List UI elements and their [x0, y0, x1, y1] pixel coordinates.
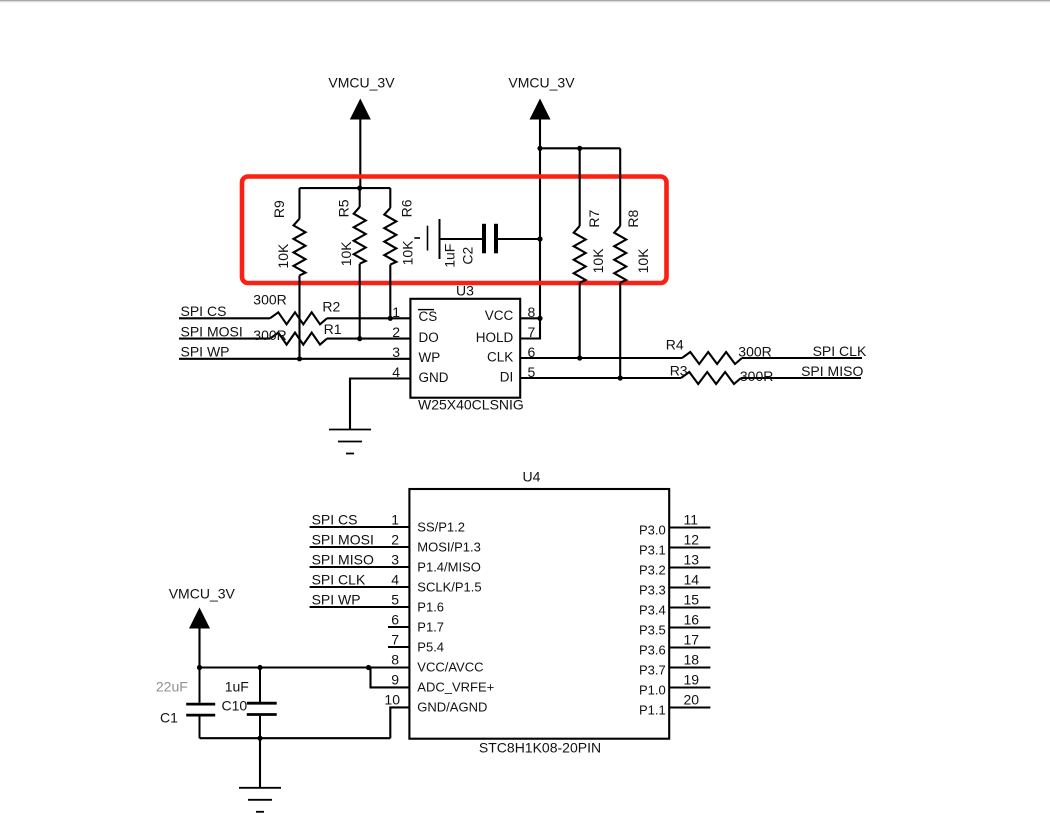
- svg-text:300R: 300R: [253, 327, 286, 343]
- svg-text:WP: WP: [419, 350, 441, 365]
- wire U4 pin 16 stub: [669, 626, 710, 628]
- wire U4 pin 15 stub: [669, 606, 710, 608]
- ground U3: [329, 429, 371, 431]
- junction dot C2 right: [537, 236, 542, 241]
- wire U4 pin 14 stub: [669, 586, 710, 588]
- svg-text:U3: U3: [456, 283, 474, 299]
- junction dot R7 top: [577, 146, 582, 151]
- svg-text:1: 1: [391, 512, 399, 528]
- svg-text:GND/AGND: GND/AGND: [417, 700, 487, 715]
- svg-text:SPI MISO: SPI MISO: [801, 363, 863, 379]
- junction dot R9 bottom pin3: [297, 356, 302, 361]
- wire U4 pin 13 stub: [669, 566, 710, 568]
- svg-text:P3.0: P3.0: [639, 523, 666, 538]
- wire VMCU_3V left down: [359, 120, 361, 189]
- resistor R2: [270, 312, 327, 324]
- junction dot R8 bottom: [618, 375, 623, 380]
- svg-text:300R: 300R: [740, 368, 773, 384]
- capacitor C10: [259, 668, 261, 702]
- svg-text:SS/P1.2: SS/P1.2: [417, 520, 465, 535]
- svg-text:19: 19: [684, 672, 700, 688]
- wire bottom gnd rail: [200, 737, 391, 739]
- wire R4 to SPI_CLK: [742, 357, 862, 359]
- resistor R5: [359, 188, 361, 207]
- wire gnd rail to ground: [259, 738, 261, 788]
- wire U4 pin 7 stub: [388, 646, 409, 648]
- net SPI_MISO wire U4 pin 3: [310, 566, 410, 568]
- wire U3 pin 4 to ground: [350, 379, 410, 430]
- svg-text:17: 17: [684, 632, 700, 648]
- svg-text:2: 2: [392, 324, 400, 340]
- svg-text:4: 4: [392, 364, 400, 380]
- svg-text:C2: C2: [459, 247, 475, 265]
- wire U4 pin 10 to gnd rail: [390, 707, 409, 738]
- net SPI_MOSI wire U4 pin 2: [310, 546, 410, 548]
- net SPI_CLK wire U4 pin 4: [310, 586, 410, 588]
- wire VCC rail to U4 pin 8: [200, 666, 410, 668]
- svg-text:VCC/AVCC: VCC/AVCC: [417, 660, 483, 675]
- ground bottom: [239, 787, 281, 789]
- wire U3 pin 8 stub: [520, 317, 540, 319]
- svg-text:SPI CS: SPI CS: [181, 303, 227, 319]
- svg-text:13: 13: [684, 552, 700, 568]
- resistor R6: [389, 188, 391, 208]
- svg-text:R9: R9: [271, 200, 287, 218]
- svg-text:10K: 10K: [399, 240, 415, 266]
- svg-text:W25X40CLSNIG: W25X40CLSNIG: [418, 397, 524, 413]
- net SPI_MOSI wire to pin 2: [179, 338, 270, 340]
- svg-text:2: 2: [391, 532, 399, 548]
- resistor R7: [579, 148, 581, 226]
- wire U4 pin 6 stub: [388, 626, 409, 628]
- svg-text:SPI WP: SPI WP: [181, 343, 230, 359]
- svg-text:9: 9: [391, 672, 399, 688]
- resistor R1: [270, 333, 327, 345]
- junction dot VMCU right / branch: [537, 146, 542, 151]
- svg-text:12: 12: [684, 532, 700, 548]
- svg-text:CLK: CLK: [487, 349, 513, 364]
- svg-text:VMCU_3V: VMCU_3V: [169, 586, 236, 602]
- svg-text:ADC_VRFE+: ADC_VRFE+: [417, 680, 494, 695]
- wire VMCU_3V right vertical rail: [539, 120, 541, 319]
- net SPI_CS wire to pin 1: [179, 317, 270, 319]
- svg-text:P3.7: P3.7: [639, 663, 666, 678]
- resistor R3: [681, 372, 741, 384]
- wire U4 pin 20 stub: [669, 706, 710, 708]
- resistor R4: [682, 352, 742, 364]
- svg-text:10: 10: [384, 692, 400, 708]
- svg-text:VMCU_3V: VMCU_3V: [508, 75, 575, 91]
- svg-text:C10: C10: [222, 698, 248, 714]
- svg-text:P3.4: P3.4: [639, 603, 666, 618]
- svg-text:SCLK/P1.5: SCLK/P1.5: [417, 580, 481, 595]
- svg-text:3: 3: [392, 344, 400, 360]
- junction dot R5 top: [357, 186, 362, 191]
- svg-text:R2: R2: [322, 299, 340, 315]
- wire top bus R9 R5 R6: [300, 187, 391, 189]
- svg-text:5: 5: [391, 592, 399, 608]
- net SPI_WP wire U4 pin 5: [310, 606, 410, 608]
- svg-text:P1.1: P1.1: [639, 703, 666, 718]
- svg-text:P1.0: P1.0: [639, 683, 666, 698]
- svg-text:STC8H1K08-20PIN: STC8H1K08-20PIN: [479, 740, 601, 756]
- svg-text:R3: R3: [670, 363, 688, 379]
- svg-text:DI: DI: [500, 370, 514, 385]
- wire branch to U4 pin 9: [371, 668, 410, 688]
- wire U4 pin 19 stub: [669, 686, 710, 688]
- svg-text:C1: C1: [160, 710, 178, 726]
- capacitor C1: [199, 668, 201, 703]
- svg-text:11: 11: [684, 512, 699, 528]
- svg-text:GND: GND: [419, 370, 449, 385]
- svg-text:300R: 300R: [253, 292, 286, 308]
- svg-text:SPI CLK: SPI CLK: [312, 572, 366, 588]
- svg-text:3: 3: [391, 552, 399, 568]
- svg-text:4: 4: [391, 572, 399, 588]
- junction dot R7 bottom: [577, 355, 582, 360]
- svg-text:16: 16: [684, 612, 700, 628]
- svg-text:20: 20: [684, 692, 700, 708]
- svg-text:DO: DO: [419, 330, 439, 345]
- svg-text:10K: 10K: [338, 241, 354, 267]
- svg-text:R7: R7: [586, 210, 602, 228]
- resistor R9: [298, 188, 300, 219]
- junction dot pin8 VCC: [537, 316, 542, 321]
- svg-text:10K: 10K: [275, 243, 291, 269]
- svg-text:VMCU_3V: VMCU_3V: [328, 75, 395, 91]
- svg-text:R4: R4: [666, 337, 684, 353]
- svg-text:P1.6: P1.6: [417, 600, 444, 615]
- window top edge band: [0, 0, 1050, 1]
- svg-text:P1.4/MISO: P1.4/MISO: [417, 560, 481, 575]
- svg-text:SPI CS: SPI CS: [312, 512, 358, 528]
- junction dot pin9 branch: [366, 665, 371, 670]
- svg-text:R5: R5: [335, 199, 351, 217]
- svg-text:SPI MISO: SPI MISO: [312, 552, 374, 568]
- wire U4 pin 18 stub: [669, 666, 710, 668]
- wire U4 pin 12 stub: [669, 546, 710, 548]
- svg-text:R1: R1: [324, 321, 342, 337]
- wire VMCU_3V bottom down: [198, 629, 200, 668]
- svg-text:MOSI/P1.3: MOSI/P1.3: [417, 540, 481, 555]
- svg-text:8: 8: [391, 652, 399, 668]
- svg-text:18: 18: [684, 652, 700, 668]
- wire branch to R7 R8 tops: [540, 147, 620, 149]
- svg-text:SPI MOSI: SPI MOSI: [312, 532, 374, 548]
- stray dash near R6 value: [414, 237, 420, 239]
- junction dot rail left: [197, 665, 202, 670]
- wire U3 pin 5 DI: [520, 377, 681, 379]
- wire U4 pin 17 stub: [669, 646, 710, 648]
- svg-text:1uF: 1uF: [442, 244, 458, 268]
- svg-text:CS: CS: [419, 309, 438, 324]
- svg-text:P3.3: P3.3: [639, 583, 666, 598]
- svg-text:VCC: VCC: [485, 308, 514, 323]
- svg-text:15: 15: [684, 592, 700, 608]
- svg-text:R8: R8: [625, 210, 641, 228]
- svg-text:P3.2: P3.2: [639, 563, 666, 578]
- op U3 box: [410, 299, 520, 398]
- svg-text:P3.6: P3.6: [639, 643, 666, 658]
- svg-text:7: 7: [391, 632, 399, 648]
- svg-text:SPI WP: SPI WP: [312, 592, 361, 608]
- svg-text:R6: R6: [398, 199, 414, 217]
- wire U4 pin 11 stub: [669, 526, 710, 528]
- svg-text:6: 6: [391, 612, 399, 628]
- junction dot gnd rail: [257, 736, 262, 741]
- svg-text:SPI MOSI: SPI MOSI: [181, 324, 243, 340]
- junction dot R6 bottom pin1: [388, 316, 393, 321]
- svg-text:P3.5: P3.5: [639, 623, 666, 638]
- svg-text:10K: 10K: [590, 248, 606, 274]
- red highlight box: [242, 177, 667, 284]
- svg-text:1uF: 1uF: [225, 679, 249, 695]
- net SPI_CS wire U4 pin 1: [310, 526, 410, 528]
- wire U3 pin 6 CLK: [520, 357, 682, 359]
- svg-text:14: 14: [684, 572, 700, 588]
- svg-text:7: 7: [528, 324, 536, 340]
- capacitor C2 plates and leads: [427, 226, 429, 251]
- svg-text:22uF: 22uF: [156, 679, 188, 695]
- svg-text:U4: U4: [523, 469, 541, 485]
- mcu U4 box: [409, 489, 669, 739]
- wire R3 to SPI_MISO: [741, 377, 861, 379]
- wire U3 pin 7 to VCC rail: [520, 318, 540, 338]
- svg-text:HOLD: HOLD: [476, 330, 514, 345]
- svg-text:SPI CLK: SPI CLK: [813, 343, 867, 359]
- svg-text:P3.1: P3.1: [639, 543, 666, 558]
- junction dot R5 bottom pin2: [357, 336, 362, 341]
- junction dot C10 top: [257, 665, 262, 670]
- net SPI_WP wire to pin 3: [179, 358, 410, 360]
- svg-text:P5.4: P5.4: [417, 640, 444, 655]
- svg-text:P1.7: P1.7: [417, 620, 444, 635]
- svg-text:10K: 10K: [635, 248, 651, 274]
- svg-text:300R: 300R: [738, 343, 771, 359]
- resistor R8: [619, 148, 621, 226]
